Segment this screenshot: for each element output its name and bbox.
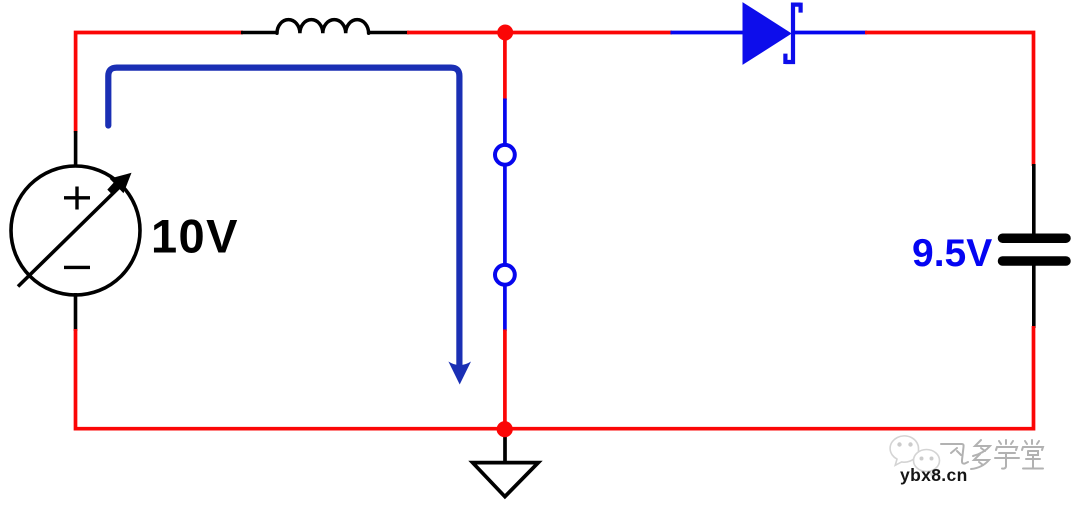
学 (999, 440, 1013, 444)
wire bottom-left red segment (source to ground node) (76, 329, 505, 429)
wire blue diode cathode lead (793, 31, 867, 35)
多 (973, 440, 990, 456)
voltage source minus sign (64, 266, 90, 269)
capacitor C1 plates (1003, 238, 1067, 261)
wire left black lead into source top (74, 131, 78, 168)
wire red from node SW toward diode (505, 31, 672, 35)
wire blue diode anode lead (671, 31, 745, 35)
node GND junction dot (497, 421, 513, 437)
inductor L1 (241, 20, 409, 34)
ground stub wire (503, 430, 507, 463)
堂 (1025, 440, 1039, 444)
diode D1 triangle (anode) (743, 3, 791, 64)
wire red switch bottom lead (503, 330, 507, 430)
switch S1 terminal circle 1 (495, 145, 515, 165)
current path annotation blue arrow (108, 68, 459, 365)
voltage source V1 circle (11, 166, 140, 295)
svg-text:9.5V: 9.5V (912, 232, 992, 275)
value label 10V (151, 210, 239, 263)
wire blue switch body upper (503, 99, 507, 151)
value label 9.5V (912, 232, 992, 275)
watermark wechat icon (890, 436, 939, 476)
wire top middle red segment (inductor to node SW) (407, 31, 506, 35)
current path annotation arrowhead (448, 362, 471, 385)
wire bottom-right red segment (capacitor to ground node) (504, 326, 1034, 429)
diode D1 schottky cathode bar (785, 3, 800, 64)
watermark text feiduo xuetang (vector hanzi) (941, 440, 1043, 469)
飞 (941, 444, 968, 464)
wire red switch top lead (503, 33, 507, 101)
wire black capacitor bottom lead (1032, 264, 1036, 328)
wire blue switch body lower (503, 286, 507, 331)
wire top-left red segment (node IN to inductor) (76, 33, 243, 133)
wire black capacitor top lead (1032, 164, 1036, 235)
wire left black lead from source bottom (74, 293, 78, 331)
svg-text:ybx8.cn: ybx8.cn (900, 465, 968, 485)
watermark text ybx8.cn (900, 465, 968, 485)
svg-text:10V: 10V (151, 210, 239, 263)
wire top-right red segment (diode to node OUT corner) (865, 33, 1034, 167)
wire blue switch body middle (503, 166, 507, 264)
node SW junction dot (497, 25, 513, 41)
voltage source variable arrowhead (107, 173, 131, 195)
voltage source plus sign (64, 187, 90, 210)
switch S1 terminal circle 2 (495, 265, 515, 285)
voltage source variable arrow line (18, 185, 122, 287)
ground symbol triangle (473, 463, 539, 497)
